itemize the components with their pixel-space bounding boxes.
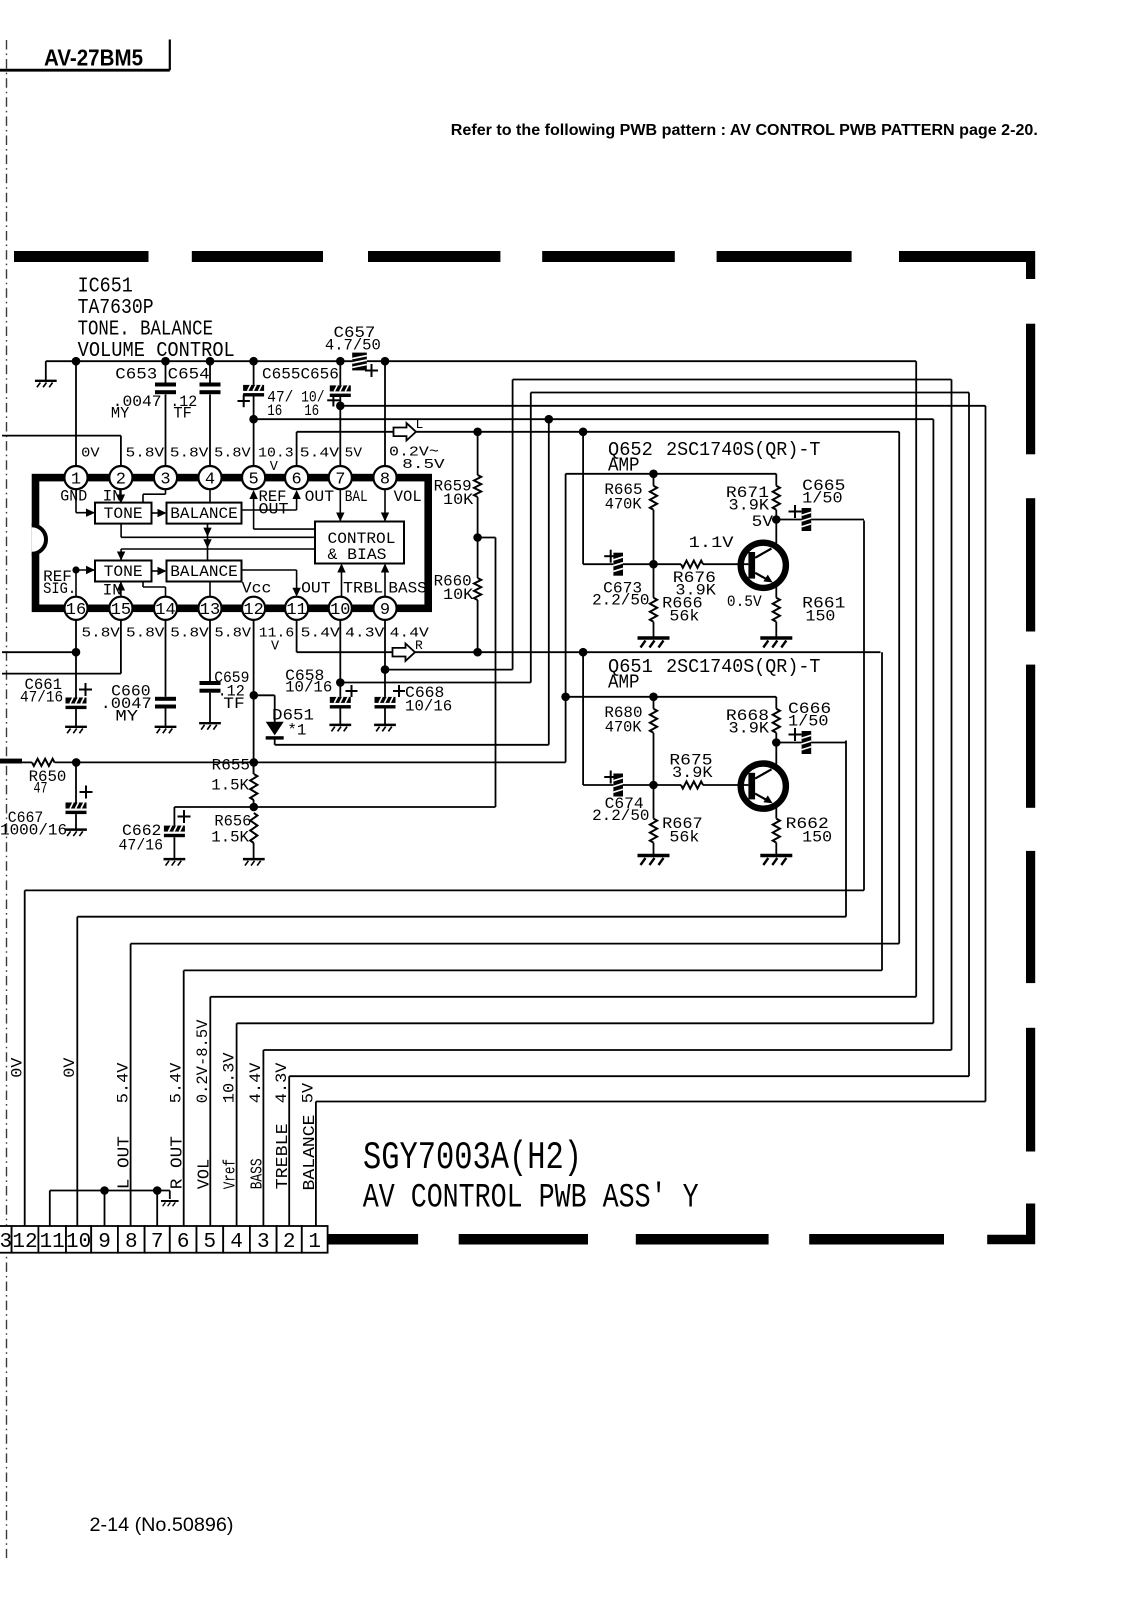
L channel block arrow: [394, 423, 417, 440]
capacitor C658 10/16: [285, 667, 357, 725]
node pin7-BAL: [336, 402, 345, 411]
svg-text:TONE: TONE: [104, 563, 143, 581]
node bus-C655: [249, 357, 258, 366]
svg-text:5.8V: 5.8V: [126, 447, 165, 462]
svg-text:VOL: VOL: [195, 1159, 214, 1189]
svg-text:BALANCE: BALANCE: [170, 563, 238, 581]
svg-text:10.3V: 10.3V: [220, 1052, 238, 1103]
capacitor C668 10/16: [375, 684, 453, 724]
svg-text:5.4V: 5.4V: [300, 447, 340, 462]
pin 15: [109, 597, 132, 620]
wire connector pin 12 run: [25, 889, 864, 891]
capacitor C673 2.2/50 input: [583, 550, 653, 610]
node pin9-BASS: [381, 665, 390, 674]
svg-text:3.9K: 3.9K: [729, 720, 770, 738]
wire control line upper: [120, 524, 122, 538]
wire Q652 input from L line: [582, 432, 584, 564]
wire C665 out to pin12 connector (0V loop A): [863, 521, 865, 891]
wire BALANCE loop down: [985, 406, 987, 1102]
wire pin10 down: [339, 620, 341, 697]
wire connector pin 3 run: [263, 1049, 951, 1051]
svg-text:16: 16: [66, 601, 86, 620]
svg-text:Vref: Vref: [222, 1159, 241, 1189]
pin 5: [242, 466, 265, 489]
node pin16: [72, 648, 81, 657]
ground R656: [243, 859, 265, 865]
wire connector local 0V tie: [50, 1190, 170, 1192]
ground C668: [374, 725, 396, 731]
wire Q651 input from R line: [582, 652, 584, 785]
connector AV CONTROL PWB pins: [0, 1226, 328, 1254]
svg-text:OUT: OUT: [305, 488, 335, 506]
svg-text:3: 3: [257, 1231, 270, 1254]
svg-text:4.4V: 4.4V: [247, 1062, 265, 1103]
ground C659: [199, 723, 221, 729]
ground R661: [760, 638, 792, 648]
wire pin2 IN arrow: [120, 489, 122, 501]
node tie-pin7: [153, 1186, 162, 1195]
ground connector tie: [169, 1191, 171, 1200]
node Vcc-D651: [250, 691, 259, 700]
wire pin16 REF SIG from off-page: [2, 651, 76, 653]
pin 4: [198, 466, 221, 489]
voltage labels below IC: [82, 626, 430, 654]
node bus-pin1: [72, 357, 81, 366]
capacitor C656 10/16: [327, 361, 351, 466]
svg-text:5.4V: 5.4V: [301, 626, 341, 641]
svg-text:IN: IN: [103, 488, 122, 506]
svg-text:BALANCE: BALANCE: [301, 1115, 320, 1191]
resistor R662 150 emitter: [773, 815, 832, 855]
svg-text:Vcc: Vcc: [242, 580, 272, 598]
svg-text:BAL: BAL: [345, 488, 368, 506]
resistor R667 56k: [650, 785, 703, 855]
svg-text:47: 47: [34, 780, 48, 798]
node rail-Q651: [561, 693, 570, 702]
svg-text:3: 3: [0, 1231, 12, 1254]
PWB border right side: [1026, 324, 1035, 455]
ground C658: [329, 725, 351, 731]
wire amp rail: [566, 696, 777, 698]
svg-text:GND: GND: [60, 488, 87, 506]
wire connector pin 6 run: [184, 969, 882, 971]
svg-text:VOL: VOL: [394, 488, 422, 506]
wire pin5 REF OUT: [249, 490, 257, 499]
wire pin11 down to R line: [296, 620, 298, 652]
svg-text:IC651: IC651: [78, 275, 133, 299]
svg-text:& BIAS: & BIAS: [328, 546, 387, 564]
ground at bus left end: [45, 361, 47, 380]
svg-text:R655: R655: [212, 757, 250, 775]
page edge dash-dot line: [6, 40, 8, 1558]
pin 3: [154, 466, 177, 489]
resistor R671 3.9K: [726, 474, 780, 520]
pin 13: [198, 597, 221, 620]
node Vcc-R650: [250, 758, 259, 767]
svg-text:56k: 56k: [669, 829, 699, 847]
svg-text:MY: MY: [115, 708, 139, 726]
pin 6: [285, 466, 308, 489]
wire pin1 to bus: [75, 361, 77, 466]
resistor R656 1.5K: [211, 813, 257, 859]
svg-text:4.3V: 4.3V: [273, 1062, 291, 1103]
wire pin9 BASS to line: [385, 669, 513, 671]
svg-text:5.8V: 5.8V: [126, 626, 165, 641]
wire Vref loop down: [932, 419, 934, 1023]
capacitor C661 47/16: [20, 676, 92, 727]
wire BALANCE wiper taps: [207, 524, 209, 561]
svg-text:2SC1740S(QR)-T: 2SC1740S(QR)-T: [666, 439, 820, 461]
svg-text:C655C656: C655C656: [262, 366, 339, 384]
pin function labels bottom: [43, 568, 427, 600]
svg-text:2-14 (No.50896): 2-14 (No.50896): [90, 1515, 234, 1536]
capacitor C657 4.7/50 on bus: [325, 324, 381, 377]
svg-text:4: 4: [230, 1231, 243, 1254]
svg-text:1000/16: 1000/16: [0, 822, 67, 840]
svg-text:5.8V: 5.8V: [215, 626, 253, 641]
node base bias: [649, 560, 658, 569]
svg-text:C654: C654: [168, 366, 210, 384]
wire connector pin 8 run: [131, 943, 900, 945]
wire pin13 to BALANCE: [209, 582, 211, 597]
node pin10-TRBL: [336, 678, 345, 687]
svg-text:V: V: [271, 640, 280, 655]
svg-text:5.8V: 5.8V: [170, 626, 209, 641]
svg-text:TF: TF: [223, 695, 245, 713]
wire pin16 REF SIG to TONE: [75, 570, 77, 597]
svg-text:16: 16: [267, 402, 282, 420]
resistor R659 10K: [434, 432, 482, 538]
svg-text:1: 1: [308, 1231, 321, 1254]
svg-text:6: 6: [177, 1231, 190, 1254]
ground R662: [760, 856, 792, 866]
svg-text:2.2/50: 2.2/50: [592, 807, 649, 825]
PWB boundary dashed border top: [14, 251, 149, 262]
svg-text:0.2V-8.5V: 0.2V-8.5V: [194, 1019, 212, 1103]
wire pin1 to TONE: [75, 489, 77, 513]
svg-text:14: 14: [155, 601, 175, 620]
svg-text:R: R: [415, 638, 423, 653]
svg-text:TA7630P: TA7630P: [78, 296, 154, 320]
svg-text:R_OUT: R_OUT: [169, 1136, 188, 1189]
C655 C656 value labels: [262, 366, 339, 420]
svg-text:TRBL: TRBL: [343, 579, 383, 597]
svg-text:SIG.: SIG.: [43, 580, 76, 598]
wire amp rail: [566, 473, 777, 475]
node tie-pin9: [100, 1186, 109, 1195]
pin 11: [285, 597, 308, 620]
wire TONE to BALANCE (upper): [152, 512, 166, 514]
node rail-R665: [649, 470, 658, 479]
svg-text:5V: 5V: [300, 1082, 318, 1103]
wire connector pin 4 run: [237, 1022, 934, 1024]
node R-C674: [579, 648, 588, 657]
pin function labels top: [60, 488, 421, 519]
wire pin8 VOL to control: [384, 489, 386, 520]
svg-text:AMP: AMP: [608, 672, 640, 694]
ground R666: [638, 638, 670, 648]
svg-text:3.9K: 3.9K: [729, 497, 770, 515]
svg-text:2.2/50: 2.2/50: [592, 591, 649, 609]
capacitor C659 .12 TF: [200, 620, 250, 723]
resistor R650 47: [0, 759, 254, 798]
node base bias: [649, 781, 658, 790]
svg-text:0V: 0V: [81, 447, 100, 462]
wire pin14 jog: [165, 587, 167, 597]
resistor R680 470K: [604, 697, 657, 785]
svg-text:3.9K: 3.9K: [672, 764, 713, 782]
svg-text:Refer to the following PWB pat: Refer to the following PWB pattern : AV …: [451, 122, 1038, 139]
svg-text:2SC1740S(QR)-T: 2SC1740S(QR)-T: [666, 656, 820, 678]
node rail-R680: [649, 693, 658, 702]
svg-text:MY: MY: [111, 405, 130, 423]
svg-text:0V: 0V: [9, 1057, 27, 1078]
wire TONE to BALANCE (lower): [152, 570, 166, 572]
svg-text:10K: 10K: [443, 586, 474, 604]
svg-text:47/16: 47/16: [119, 837, 164, 855]
capacitor C665 1/50 output: [776, 477, 864, 531]
wire C666 out loop: [845, 741, 847, 917]
node collector: [772, 738, 781, 747]
model label box AV-27BM5: [0, 40, 170, 71]
svg-text:BALANCE: BALANCE: [170, 505, 238, 523]
resistor R655 1.5K: [211, 757, 257, 808]
wire TREBLE line y392: [531, 392, 969, 394]
pin 8: [373, 466, 396, 489]
svg-text:TF: TF: [173, 405, 191, 423]
resistor R676 3.9K: [654, 561, 749, 600]
capacitor C666 1/50 output: [776, 700, 846, 754]
capacitor C655 47/16: [238, 361, 265, 466]
svg-text:4: 4: [205, 470, 215, 489]
svg-text:13: 13: [200, 601, 220, 620]
IC internal TONE box (upper): [95, 503, 152, 524]
svg-text:9: 9: [380, 601, 390, 620]
svg-text:10: 10: [330, 601, 350, 620]
wire top bus 0V rail: [46, 360, 352, 362]
resistor R665 470K: [604, 474, 657, 564]
pin 2: [109, 466, 132, 489]
wire pin15 from off-page: [120, 620, 122, 674]
resistor R675 3.9K: [654, 752, 749, 789]
svg-text:16: 16: [304, 402, 319, 420]
node pin5-REF: [249, 415, 258, 424]
wire pin4 to BALANCE: [209, 489, 211, 502]
svg-text:*1: *1: [287, 722, 306, 740]
wire BASS line y379: [513, 379, 952, 381]
node R650-C667: [72, 758, 81, 767]
svg-text:15: 15: [111, 601, 131, 620]
svg-text:AV CONTROL PWB ASS' Y: AV CONTROL PWB ASS' Y: [363, 1180, 699, 1218]
svg-text:8: 8: [380, 470, 390, 489]
svg-text:AV-27BM5: AV-27BM5: [44, 45, 143, 71]
wire D651 to REF vertical: [275, 744, 549, 746]
wire L OUT line y431.8: [297, 431, 900, 433]
svg-text:0.5V: 0.5V: [727, 593, 762, 611]
svg-text:7: 7: [151, 1231, 164, 1254]
svg-text:10: 10: [66, 1231, 91, 1254]
svg-text:47/16: 47/16: [20, 688, 63, 706]
IC internal BALANCE box (lower): [167, 561, 242, 582]
svg-text:11: 11: [40, 1231, 65, 1254]
svg-text:6: 6: [291, 470, 301, 489]
svg-text:5.8V: 5.8V: [82, 626, 121, 641]
svg-text:1.5K: 1.5K: [211, 776, 249, 794]
svg-text:0V: 0V: [61, 1057, 79, 1078]
svg-text:OUT: OUT: [259, 500, 289, 518]
svg-text:12: 12: [12, 1231, 37, 1254]
svg-text:470K: 470K: [605, 719, 642, 737]
svg-text:10/16: 10/16: [285, 679, 332, 697]
PWB border bottom: [326, 1234, 418, 1245]
PWB border top-right corner: [899, 251, 1035, 279]
svg-text:9: 9: [98, 1231, 111, 1254]
capacitor C662 47/16: [119, 807, 191, 859]
svg-text:150: 150: [802, 829, 832, 847]
voltage labels above IC: [81, 447, 363, 475]
ground R667: [638, 856, 670, 866]
wire pin11 OUT: [242, 569, 297, 571]
pin 12: [242, 597, 265, 620]
node REF-D651 branch: [545, 415, 554, 424]
ground C660: [155, 727, 177, 733]
svg-text:L_OUT: L_OUT: [116, 1136, 135, 1189]
wire connector pin 5 run: [210, 996, 916, 998]
wire pin2 input from off-page: [2, 435, 121, 437]
IC internal BALANCE box (upper): [167, 503, 242, 524]
svg-text:C653: C653: [115, 366, 157, 384]
transistor Q651: [741, 743, 786, 819]
R channel block arrow: [393, 644, 416, 661]
node bus-C654: [206, 357, 215, 366]
node L-C673: [579, 428, 588, 437]
svg-text:SGY7003A(H2): SGY7003A(H2): [363, 1136, 582, 1180]
wire pin10 TRBL to line: [340, 682, 531, 684]
pin 7: [329, 466, 352, 489]
svg-text:5V: 5V: [345, 447, 363, 462]
wire connector pin 1 run: [316, 1101, 986, 1103]
svg-text:5: 5: [204, 1231, 217, 1254]
svg-text:8: 8: [125, 1231, 138, 1254]
wire R OUT loop down: [881, 652, 883, 970]
node R659-R660 mid: [473, 533, 482, 542]
svg-text:12: 12: [243, 601, 263, 620]
svg-text:2: 2: [116, 470, 126, 489]
capacitor C667 1000/16: [0, 762, 93, 839]
wire pin10 TRBL: [341, 565, 343, 597]
wire rail vertical x565: [565, 474, 567, 763]
node R-R660: [473, 648, 482, 657]
capacitor C654 .12 TF: [168, 361, 221, 466]
transistor Q652 label: [608, 439, 820, 477]
wire connector pin 10 run: [77, 916, 846, 918]
svg-text:1/50: 1/50: [788, 712, 829, 730]
wire connector pin 2 run: [289, 1075, 969, 1077]
ground C661: [65, 727, 87, 733]
ground C667: [65, 830, 87, 836]
wire pin6 OUT: [292, 490, 300, 499]
svg-text:BASS: BASS: [388, 579, 426, 597]
svg-text:1: 1: [71, 470, 81, 489]
svg-text:OUT: OUT: [301, 579, 331, 597]
wire VOL loop down: [915, 361, 917, 997]
diode D651: [254, 695, 314, 745]
pin 1: [64, 466, 87, 489]
svg-text:BASS: BASS: [248, 1158, 267, 1189]
transistor Q652: [741, 520, 786, 598]
pin 16: [64, 597, 87, 620]
node bus-C653: [161, 357, 170, 366]
pin 9: [373, 597, 396, 620]
svg-text:IN: IN: [103, 582, 122, 600]
wire bias node to C662 and R659 mid: [174, 806, 495, 808]
node R655-R656: [250, 803, 259, 812]
capacitor C674 2.2/50 input: [583, 771, 653, 825]
svg-text:56k: 56k: [669, 608, 699, 626]
svg-text:8.5V: 8.5V: [402, 458, 445, 473]
svg-text:470K: 470K: [605, 496, 642, 514]
wire R OUT line y652: [297, 651, 881, 653]
svg-text:4.4V: 4.4V: [390, 626, 430, 641]
svg-text:TREBLE: TREBLE: [274, 1123, 293, 1189]
wire pin15 IN arrow: [120, 583, 122, 597]
wire pin9 BASS: [384, 565, 386, 597]
resistor R666 56k: [650, 564, 703, 637]
wire BAL line y405: [340, 405, 985, 407]
ground C662: [164, 859, 186, 865]
svg-text:10K: 10K: [443, 491, 474, 509]
wire pin8 to bus: [384, 361, 386, 466]
svg-text:7: 7: [335, 470, 345, 489]
op-amp IC651 body: [32, 478, 429, 609]
wire L OUT loop down: [898, 432, 900, 944]
svg-text:5.4V: 5.4V: [114, 1062, 132, 1103]
svg-text:5V: 5V: [752, 513, 774, 531]
svg-text:TONE: TONE: [104, 505, 143, 523]
svg-text:5: 5: [248, 470, 258, 489]
svg-text:150: 150: [806, 608, 836, 626]
IC internal TONE box (lower): [95, 561, 152, 582]
svg-text:2: 2: [283, 1231, 296, 1254]
capacitor C653 .0047 MY: [111, 361, 176, 466]
IC651 title text: [78, 275, 235, 363]
svg-text:V: V: [270, 460, 279, 475]
svg-text:10/16: 10/16: [405, 698, 452, 716]
wire pin12 Vcc column: [253, 620, 255, 774]
node L-R659: [473, 428, 482, 437]
wire pin7 BAL to control: [339, 489, 341, 520]
node collector: [772, 515, 781, 524]
svg-text:1.1V: 1.1V: [689, 534, 735, 552]
PWB border bottom-right corner: [987, 1204, 1035, 1245]
svg-text:1.5K: 1.5K: [211, 828, 249, 846]
svg-text:4.7/50: 4.7/50: [325, 336, 381, 354]
pin 10: [329, 597, 352, 620]
svg-text:5.4V: 5.4V: [168, 1062, 186, 1103]
wire control line lower: [121, 548, 315, 550]
svg-text:11: 11: [286, 601, 306, 620]
svg-text:4.3V: 4.3V: [345, 626, 385, 641]
transistor Q651 label: [608, 656, 820, 694]
node bus-pin8: [381, 357, 390, 366]
svg-text:5.8V: 5.8V: [214, 447, 252, 462]
wire TREBLE loop down: [968, 393, 970, 1077]
svg-text:3: 3: [160, 470, 170, 489]
svg-text:5.8V: 5.8V: [170, 447, 209, 462]
IC internal CONTROL & BIAS box: [315, 522, 404, 564]
pin 14: [154, 597, 177, 620]
wire bias rail to Q651 rail riser: [254, 761, 566, 763]
